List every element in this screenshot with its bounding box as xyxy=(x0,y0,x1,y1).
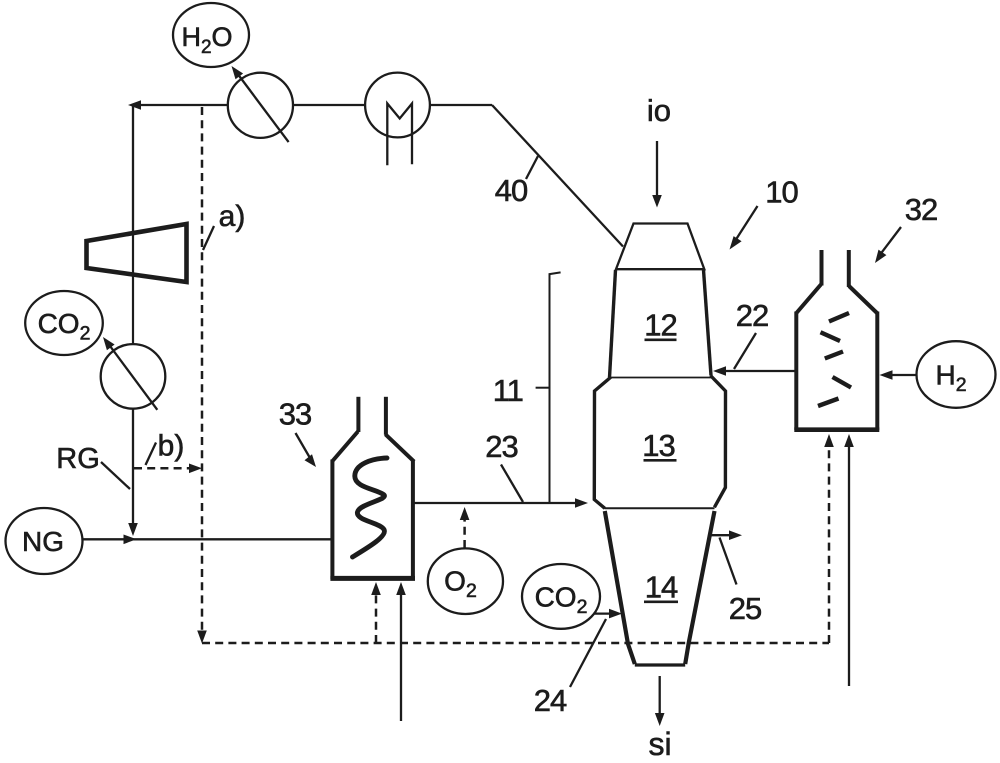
junction line 13/14 xyxy=(605,507,715,509)
svg-text:13: 13 xyxy=(642,428,674,463)
svg-text:23: 23 xyxy=(485,429,517,464)
heater coil in vessel 33 xyxy=(353,458,388,557)
arrowhead left at top corner xyxy=(128,100,141,110)
leader a) xyxy=(203,226,214,250)
vessel 10 hood (top cone) xyxy=(616,224,704,270)
svg-text:32: 32 xyxy=(905,192,937,227)
svg-text:12: 12 xyxy=(644,308,676,343)
svg-text:si: si xyxy=(648,726,671,762)
vessel section 13 outline right xyxy=(711,376,726,508)
condenser M circle xyxy=(365,73,430,138)
vessel 32 body xyxy=(794,250,879,430)
svg-text:25: 25 xyxy=(729,591,761,626)
leader 40 xyxy=(526,156,538,179)
heat exchanger circle E1 (cooler) xyxy=(228,73,293,138)
svg-text:RG: RG xyxy=(56,443,100,475)
bracket 11 xyxy=(550,272,561,502)
solid feed up into vessel 33 xyxy=(400,595,402,721)
ellipse H2 xyxy=(917,341,996,408)
dashed line up to vessel 32 xyxy=(828,447,831,643)
dashed branch up to vessel 33 xyxy=(375,595,378,643)
wire condenser to bend xyxy=(429,104,492,106)
wire cooler to condenser xyxy=(293,104,366,106)
svg-text:b): b) xyxy=(158,430,185,463)
solid feed up into vessel 32 xyxy=(848,447,850,686)
turbine trapezoid xyxy=(87,224,187,282)
svg-text:24: 24 xyxy=(534,683,567,718)
wire pump down to NG junction xyxy=(132,409,134,526)
arrow io into vessel top xyxy=(656,141,658,196)
vessel section 12 walls xyxy=(610,270,616,378)
cooler diagonal arrow to H2O xyxy=(237,73,289,142)
svg-text:10: 10 xyxy=(765,175,798,210)
arrow 32 to vessel xyxy=(879,227,901,256)
arrow 33 to vessel xyxy=(296,433,311,458)
wire 22 from vessel 32 to vessel 10 xyxy=(724,370,795,372)
wire vertical down to turbine xyxy=(132,105,134,233)
ellipse CO2 bottom xyxy=(522,564,600,629)
arrow 25 out of cone xyxy=(710,534,731,536)
pump circle xyxy=(101,344,166,409)
svg-text:11: 11 xyxy=(493,373,523,408)
svg-text:33: 33 xyxy=(279,397,311,432)
catalyst marks in vessel 32 xyxy=(818,313,851,406)
leader 23 xyxy=(501,465,523,503)
svg-text:NG: NG xyxy=(22,526,64,557)
cone bottom edge xyxy=(635,663,685,666)
dashed recycle line horizontal xyxy=(202,642,829,645)
dashed recycle line a) vertical xyxy=(201,107,204,632)
vessel 33 body xyxy=(330,397,415,579)
svg-text:40: 40 xyxy=(495,173,528,208)
leader 22 xyxy=(734,333,756,369)
ellipse CO2 left xyxy=(25,291,103,355)
svg-text:a): a) xyxy=(219,200,246,233)
ellipse H2O xyxy=(173,3,249,67)
junction line 12/13 xyxy=(610,377,711,379)
svg-text:14: 14 xyxy=(645,570,678,605)
pump diagonal arrow to CO2 xyxy=(110,346,157,410)
wire turbine to pump xyxy=(132,231,134,344)
leader b) xyxy=(146,443,157,466)
ellipse NG xyxy=(6,508,83,574)
ellipse O2 xyxy=(428,548,503,614)
wire top horizontal from corner to cooler xyxy=(132,104,228,106)
leader 25 xyxy=(720,538,737,585)
arrow CO2 into cone 14 xyxy=(594,612,611,614)
svg-text:22: 22 xyxy=(736,298,768,333)
leader RG xyxy=(101,462,130,489)
svg-text:io: io xyxy=(647,93,671,128)
wire 23 from vessel 33 to vessel 10 xyxy=(413,502,577,504)
wire 40 diagonal to vessel hood xyxy=(492,105,623,247)
dashed arrow O2 into line 23 xyxy=(463,520,466,548)
condenser M symbol xyxy=(387,104,412,166)
vessel section 13 outline left xyxy=(594,377,611,508)
arrow H2 into vessel 32 xyxy=(890,374,917,376)
arrow 10 to vessel xyxy=(735,206,758,241)
wire NG to vessel 33 xyxy=(83,538,333,540)
leader 24 xyxy=(570,619,606,687)
arrow si outlet xyxy=(659,676,661,715)
vessel section 14 cone xyxy=(605,511,635,664)
dashed arrow b to recycle line xyxy=(134,467,191,470)
